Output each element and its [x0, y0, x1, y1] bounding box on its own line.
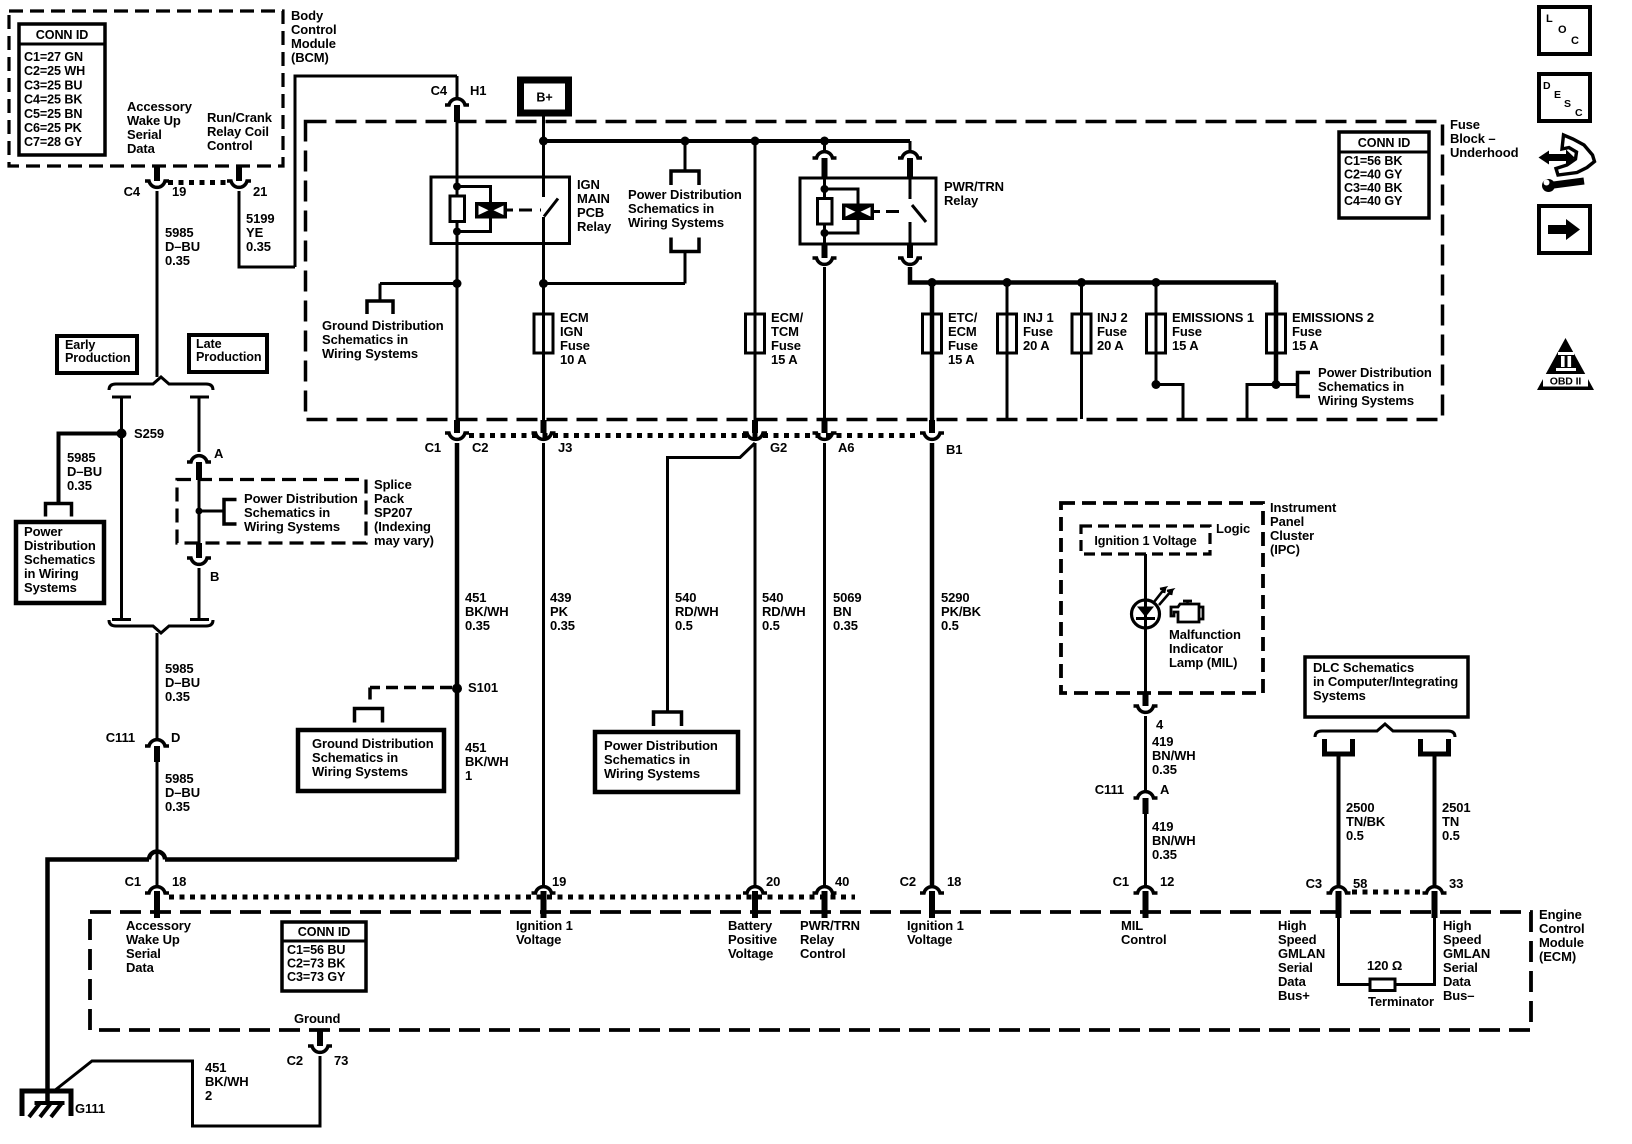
box Early Production: [57, 336, 137, 373]
PWR/TRN relay coil resistor: [818, 199, 833, 225]
brace from DLC reference to bus wires: [1315, 724, 1455, 737]
svg-text:Relay: Relay: [800, 932, 835, 947]
svg-text:540: 540: [762, 590, 783, 605]
splice S259: [117, 429, 127, 439]
svg-text:C111: C111: [1095, 782, 1124, 797]
svg-text:20 A: 20 A: [1097, 338, 1124, 353]
svg-text:Distribution: Distribution: [24, 538, 96, 553]
DLC terminal (bus -): [1421, 739, 1449, 754]
svg-text:C1: C1: [1113, 874, 1129, 889]
svg-text:Terminator: Terminator: [1368, 994, 1434, 1009]
svg-text:D–BU: D–BU: [165, 675, 200, 690]
dotted in-line connector row: [469, 433, 920, 438]
brace joining production paths (lower): [109, 620, 213, 633]
table CONN ID (BCM): [19, 24, 105, 155]
svg-text:Schematics in: Schematics in: [628, 201, 714, 216]
svg-text:G2: G2: [770, 440, 787, 455]
svg-text:C2=73 BK: C2=73 BK: [287, 956, 345, 970]
dotted connector line C3: [1352, 890, 1423, 895]
box Power Distribution Schematics in Wiring Systems (left): [16, 522, 104, 603]
connector G2: [752, 420, 758, 433]
svg-text:(IPC): (IPC): [1270, 542, 1300, 557]
connector pin 20 at ECM: [743, 887, 767, 893]
svg-text:C: C: [1571, 35, 1579, 47]
wire EMISSIONS 2 to power distribution reference: [1276, 383, 1298, 386]
svg-text:Data: Data: [126, 960, 155, 975]
connector C3 pin 58 at ECM: [1327, 887, 1351, 893]
wire early production branch down to S259: [120, 397, 123, 434]
svg-text:C2=40 GY: C2=40 GY: [1344, 167, 1403, 181]
svg-text:Bus–: Bus–: [1443, 988, 1474, 1003]
svg-text:Body: Body: [291, 8, 324, 23]
connector C2 pin 18 at ECM: [920, 887, 944, 893]
wire from B+ to power rail: [542, 110, 545, 141]
svg-text:GMLAN: GMLAN: [1443, 946, 1490, 961]
PWR/TRN solenoid loop: [825, 189, 859, 204]
svg-text:Voltage: Voltage: [728, 946, 773, 961]
svg-text:C7=28 GY: C7=28 GY: [24, 135, 83, 149]
svg-text:451: 451: [205, 1060, 226, 1075]
svg-text:0.35: 0.35: [1152, 762, 1177, 777]
svg-text:High: High: [1278, 918, 1307, 933]
icon vehicle service (arrow, car, wrench): [1556, 135, 1595, 175]
svg-text:Serial: Serial: [1278, 960, 1313, 975]
svg-text:Power Distribution: Power Distribution: [244, 491, 358, 506]
svg-text:Voltage: Voltage: [516, 932, 561, 947]
svg-text:C2: C2: [287, 1053, 303, 1068]
svg-text:12: 12: [1160, 874, 1174, 889]
svg-text:Relay: Relay: [944, 193, 979, 208]
svg-text:CONN ID: CONN ID: [36, 28, 88, 42]
svg-text:C1=56 BU: C1=56 BU: [287, 943, 345, 957]
off-page bracket return (bottom): [671, 238, 699, 252]
svg-text:D–BU: D–BU: [165, 239, 200, 254]
svg-text:E: E: [1554, 89, 1561, 101]
connector C1 pin 18 at ECM: [145, 887, 169, 893]
svg-text:IGN: IGN: [560, 324, 583, 339]
svg-text:451: 451: [465, 740, 486, 755]
fuse ECM IGN 10A: [534, 314, 553, 353]
svg-text:Battery: Battery: [728, 918, 773, 933]
svg-text:Cluster: Cluster: [1270, 528, 1314, 543]
svg-text:ECM: ECM: [948, 324, 977, 339]
off-page bracket power distribution (top): [671, 171, 699, 185]
off-page bracket (horizontal) to power distribution from splice pack: [224, 500, 237, 525]
svg-text:1: 1: [465, 768, 472, 783]
wire ECM/TCM fuse to connector G2: [754, 353, 757, 420]
svg-text:Production: Production: [65, 351, 130, 365]
svg-text:Power Distribution: Power Distribution: [604, 738, 718, 753]
wire INJ 1 fuse to fuse block edge: [1006, 353, 1009, 419]
svg-text:Power Distribution: Power Distribution: [628, 187, 742, 202]
svg-text:Wiring Systems: Wiring Systems: [322, 346, 418, 361]
svg-text:C2=25 WH: C2=25 WH: [24, 64, 85, 78]
ground run wire 451 to left side: [165, 857, 457, 862]
svg-text:Malfunction: Malfunction: [1169, 627, 1241, 642]
svg-text:Accessory: Accessory: [127, 99, 193, 114]
wire 5985 D-BU from C111 to ECM pin 18: [156, 762, 159, 885]
svg-text:0.5: 0.5: [941, 618, 959, 633]
PWR/TRN actuating dashes: [886, 210, 906, 213]
svg-text:ECM: ECM: [560, 310, 589, 325]
svg-text:PK/BK: PK/BK: [941, 604, 982, 619]
svg-text:H1: H1: [470, 83, 486, 98]
svg-text:C: C: [1575, 107, 1583, 119]
svg-text:Positive: Positive: [728, 932, 777, 947]
IGN MAIN relay coil top junction: [453, 183, 461, 191]
svg-text:19: 19: [552, 874, 566, 889]
IGN MAIN relay coil bottom junction: [453, 228, 461, 236]
svg-text:Engine: Engine: [1539, 907, 1582, 922]
svg-text:Speed: Speed: [1443, 932, 1482, 947]
svg-text:INJ 2: INJ 2: [1097, 310, 1128, 325]
wire INJ 2 fuse to fuse block edge: [1080, 353, 1083, 419]
wire 5199 YE 0.35 from pin 21 to BCM: [239, 191, 295, 267]
wire from connector B down to lower brace: [198, 568, 201, 620]
relay IGN MAIN PCB outline: [431, 177, 570, 244]
connector C111 pin D: [145, 740, 169, 746]
svg-text:58: 58: [1353, 876, 1367, 891]
svg-text:ECM/: ECM/: [771, 310, 804, 325]
box Late Production: [189, 335, 267, 372]
svg-text:Control: Control: [291, 22, 337, 37]
IGN MAIN relay coil pin segments: [456, 177, 459, 196]
svg-text:Serial: Serial: [1443, 960, 1478, 975]
junction on rail feeding ECM/TCM fuse: [751, 137, 760, 146]
svg-text:Power Distribution: Power Distribution: [1318, 365, 1432, 380]
svg-text:D: D: [171, 730, 180, 745]
svg-text:Power: Power: [24, 524, 63, 539]
splice pack SP207 dashed outline: [177, 480, 366, 544]
connector B1: [929, 420, 935, 433]
svg-text:(Indexing: (Indexing: [374, 519, 431, 534]
connector pin 19 at ECM: [532, 887, 556, 893]
svg-text:Schematics in: Schematics in: [244, 505, 330, 520]
svg-text:0.35: 0.35: [165, 799, 190, 814]
junction bus to INJ 1 fuse: [1003, 278, 1012, 287]
svg-text:Speed: Speed: [1278, 932, 1317, 947]
junction bus to EMISSIONS 1 fuse: [1152, 278, 1161, 287]
PWR/TRN coil junctions: [821, 185, 829, 193]
svg-text:Underhood: Underhood: [1450, 145, 1519, 160]
wire GMLAN bus+ to terminator: [1339, 918, 1371, 985]
terminal bar early production branch: [112, 396, 131, 399]
svg-text:D–BU: D–BU: [67, 464, 102, 479]
svg-text:540: 540: [675, 590, 696, 605]
svg-text:C4: C4: [431, 83, 448, 98]
svg-text:CONN ID: CONN ID: [1358, 136, 1410, 150]
wire hop over 5985 wire: [149, 852, 165, 860]
fuse ECM/TCM 15A: [746, 314, 765, 353]
svg-text:S: S: [1564, 98, 1571, 110]
svg-text:Control: Control: [1539, 921, 1585, 936]
indicator lamp MIL (LED symbol): [1132, 600, 1160, 628]
wire 2500 TN/BK from DLC to ECM pin 58: [1337, 754, 1341, 885]
box DLC Schematics in Computer/Integrating Systems: [1305, 657, 1468, 717]
svg-text:Module: Module: [291, 36, 336, 51]
wire PWR/TRN coil to connector A6: [823, 267, 826, 432]
svg-text:0.35: 0.35: [67, 478, 92, 493]
table CONN ID (fuse block): [1339, 132, 1429, 218]
svg-text:EMISSIONS 1: EMISSIONS 1: [1172, 310, 1254, 325]
svg-text:TCM: TCM: [771, 324, 799, 339]
svg-text:G111: G111: [75, 1101, 105, 1116]
svg-text:IGN: IGN: [577, 177, 600, 192]
ground G111 wire into symbol: [45, 1091, 50, 1103]
svg-text:Fuse: Fuse: [560, 338, 590, 353]
wire EMISSIONS 1 fuse to fuse block edge: [1155, 353, 1158, 385]
fuse EMISSIONS 2 15A: [1274, 283, 1279, 315]
off-page bracket power distribution (emissions): [1298, 373, 1311, 397]
brace splitting early/late production paths: [109, 377, 213, 390]
svg-text:Accessory: Accessory: [126, 918, 192, 933]
PWR/TRN switch blade: [912, 205, 926, 222]
svg-text:Control: Control: [207, 138, 253, 153]
module box: IPC dashed outline: [1061, 503, 1263, 693]
dotted connector line between pins 19 and 21: [168, 180, 228, 185]
svg-text:ETC/: ETC/: [948, 310, 978, 325]
svg-text:Schematics: Schematics: [24, 552, 95, 567]
svg-text:Production: Production: [196, 350, 261, 364]
svg-text:C5=25 BN: C5=25 BN: [24, 107, 82, 121]
svg-text:0.35: 0.35: [246, 239, 271, 254]
svg-text:40: 40: [835, 874, 849, 889]
svg-text:Fuse: Fuse: [948, 338, 978, 353]
svg-text:PWR/TRN: PWR/TRN: [944, 179, 1004, 194]
svg-text:Lamp (MIL): Lamp (MIL): [1169, 655, 1237, 670]
IGN MAIN relay switch fixed contacts: [542, 177, 545, 197]
svg-text:DLC Schematics: DLC Schematics: [1313, 660, 1414, 675]
svg-text:BN/WH: BN/WH: [1152, 748, 1196, 763]
wire ETC/ECM fuse to connector B1: [930, 353, 935, 420]
svg-text:Fuse: Fuse: [1097, 324, 1127, 339]
svg-text:439: 439: [550, 590, 571, 605]
connector C4 pin 21 at BCM: [236, 166, 242, 181]
svg-text:Schematics in: Schematics in: [322, 332, 408, 347]
svg-text:PWR/TRN: PWR/TRN: [800, 918, 860, 933]
PWR/TRN relay bottom connectors: [822, 244, 828, 258]
svg-text:Systems: Systems: [24, 580, 77, 595]
svg-text:may vary): may vary): [374, 533, 434, 548]
off-page bracket to power distribution (left): [46, 504, 72, 517]
connector pin 40 at ECM: [813, 887, 837, 893]
svg-text:5985: 5985: [165, 771, 194, 786]
svg-text:Schematics in: Schematics in: [312, 750, 398, 765]
svg-text:Early: Early: [65, 338, 95, 352]
wire from S259 continuing down to lower brace: [120, 434, 123, 620]
wire EMISSIONS 2 fuse to fuse block edge: [1274, 353, 1279, 385]
box Ground Distribution Schematics in Wiring Systems (S101): [298, 730, 444, 791]
svg-text:5069: 5069: [833, 590, 862, 605]
svg-text:C1=56 BK: C1=56 BK: [1344, 154, 1402, 168]
resistor terminator 120 ohm: [1370, 979, 1395, 991]
svg-text:BN/WH: BN/WH: [1152, 833, 1196, 848]
svg-text:EMISSIONS 2: EMISSIONS 2: [1292, 310, 1374, 325]
fuse INJ 2 20A: [1080, 283, 1083, 315]
svg-text:0.35: 0.35: [833, 618, 858, 633]
svg-text:20: 20: [766, 874, 780, 889]
wire from rail to ECM/TCM fuse: [754, 141, 757, 314]
svg-text:2500: 2500: [1346, 800, 1375, 815]
svg-text:Wiring Systems: Wiring Systems: [1318, 393, 1414, 408]
svg-text:Systems: Systems: [1313, 688, 1366, 703]
connector C4 pin H1 into fuse block: [456, 76, 459, 97]
svg-text:B1: B1: [946, 442, 962, 457]
svg-text:(ECM): (ECM): [1539, 949, 1576, 964]
svg-text:19: 19: [172, 184, 186, 199]
junction coil return / ground distribution branch: [453, 279, 462, 288]
svg-text:Schematics in: Schematics in: [604, 752, 690, 767]
engine icon (check engine): [1171, 604, 1199, 622]
wire 5985 D-BU branch from S259 to power distribution reference: [59, 434, 122, 504]
svg-text:73: 73: [334, 1053, 348, 1068]
svg-text:O: O: [1558, 24, 1567, 36]
wire IGN MAIN coil return to ground distribution: [456, 244, 459, 433]
svg-text:S259: S259: [134, 426, 164, 441]
svg-text:C3=25 BU: C3=25 BU: [24, 78, 82, 92]
svg-text:C4: C4: [124, 184, 141, 199]
svg-text:Panel: Panel: [1270, 514, 1304, 529]
off-page bracket ground distribution (S101): [355, 709, 383, 723]
svg-text:Pack: Pack: [374, 491, 405, 506]
svg-text:B: B: [210, 569, 219, 584]
svg-text:Data: Data: [1278, 974, 1307, 989]
svg-text:Ignition 1: Ignition 1: [907, 918, 964, 933]
svg-text:2501: 2501: [1442, 800, 1471, 815]
splice S101: [452, 684, 462, 694]
svg-text:INJ 1: INJ 1: [1023, 310, 1054, 325]
svg-text:15 A: 15 A: [1292, 338, 1319, 353]
svg-text:451: 451: [465, 590, 486, 605]
svg-text:Wiring Systems: Wiring Systems: [628, 215, 724, 230]
junction in splice pack to power distribution reference: [196, 508, 203, 515]
wire 540 RD/WH branch from G2 to power distribution: [668, 443, 756, 712]
connector C111 pin A (MIL circuit): [1134, 792, 1158, 798]
svg-text:Voltage: Voltage: [907, 932, 952, 947]
connector A of splice pack SP207: [187, 456, 211, 462]
connector C1 pin 12 at ECM: [1134, 887, 1158, 893]
junction of IGN MAIN switch output: [539, 279, 548, 288]
svg-text:Wiring Systems: Wiring Systems: [604, 766, 700, 781]
logic block Ignition 1 Voltage: [1081, 526, 1210, 554]
svg-text:CONN ID: CONN ID: [298, 925, 350, 939]
off-page bracket ground distribution (fuse block): [367, 301, 393, 314]
svg-text:YE: YE: [246, 225, 264, 240]
svg-text:0.35: 0.35: [165, 689, 190, 704]
svg-text:Wake Up: Wake Up: [126, 932, 180, 947]
svg-text:15 A: 15 A: [1172, 338, 1199, 353]
svg-text:MIL: MIL: [1121, 918, 1143, 933]
svg-text:Ground Distribution: Ground Distribution: [312, 736, 434, 751]
module box: BCM connector-ID dashed outline: [9, 11, 283, 166]
svg-text:Ground: Ground: [294, 1011, 340, 1026]
svg-text:18: 18: [947, 874, 961, 889]
wire Ignition 1 Voltage to MIL lamp: [1144, 554, 1147, 600]
IGN MAIN relay solenoid loop: [457, 187, 491, 204]
svg-text:D–BU: D–BU: [165, 785, 200, 800]
svg-text:RD/WH: RD/WH: [675, 604, 719, 619]
svg-text:Wiring Systems: Wiring Systems: [244, 519, 340, 534]
connector caps feeding PWR/TRN relay: [820, 137, 829, 146]
svg-text:C3=40 BK: C3=40 BK: [1344, 181, 1402, 195]
svg-text:Fuse: Fuse: [1292, 324, 1322, 339]
svg-text:5290: 5290: [941, 590, 970, 605]
svg-text:J3: J3: [558, 440, 572, 455]
module box: fuse block underhood dashed outline: [306, 122, 1443, 420]
svg-text:Instrument: Instrument: [1270, 500, 1337, 515]
svg-text:C1: C1: [425, 440, 441, 455]
svg-text:C1: C1: [125, 874, 141, 889]
svg-text:Ignition 1 Voltage: Ignition 1 Voltage: [1094, 534, 1196, 548]
icon LOC: [1539, 7, 1590, 54]
svg-text:BN: BN: [833, 604, 852, 619]
svg-text:419: 419: [1152, 734, 1173, 749]
terminal bar late production branch: [190, 396, 209, 399]
wire IGN MAIN switch output to ECM IGN fuse: [542, 141, 545, 177]
icon OBD II warning triangle: [1537, 338, 1594, 390]
wire 451 BK/WH from C2 to S101: [455, 443, 460, 689]
svg-text:Ignition 1: Ignition 1: [516, 918, 573, 933]
junction bus to INJ 2 fuse: [1077, 278, 1086, 287]
dashed branch from S101 to ground distribution: [370, 686, 452, 690]
svg-text:20 A: 20 A: [1023, 338, 1050, 353]
module box: ECM dashed outline: [90, 912, 1531, 1030]
ground G111 symbol: [22, 1091, 71, 1116]
fuse EMISSIONS 1 15A: [1155, 283, 1158, 315]
svg-text:0.35: 0.35: [1152, 847, 1177, 862]
wire 5985 D-BU from pin 19 down to production brace: [156, 191, 159, 377]
wire 451 BK/WH 1 from S101 to ground run: [455, 689, 460, 860]
svg-text:Wake Up: Wake Up: [127, 113, 181, 128]
svg-text:Fuse: Fuse: [771, 338, 801, 353]
svg-text:Data: Data: [1443, 974, 1472, 989]
svg-text:in Wiring: in Wiring: [24, 566, 79, 581]
svg-text:C3=73 GY: C3=73 GY: [287, 970, 346, 984]
svg-text:18: 18: [172, 874, 186, 889]
PWR/TRN solenoid symbol: [842, 204, 874, 221]
wire 5985 D-BU from lower brace to C111: [156, 633, 159, 738]
svg-text:PK: PK: [550, 604, 569, 619]
svg-text:5985: 5985: [165, 661, 194, 676]
junction to power distribution off-page reference: [681, 137, 690, 146]
MIL lamp emission arrows: [1154, 588, 1172, 605]
svg-text:5985: 5985: [67, 450, 96, 465]
svg-text:C4=40 GY: C4=40 GY: [1344, 194, 1403, 208]
svg-text:120 Ω: 120 Ω: [1367, 958, 1402, 973]
svg-text:C111: C111: [106, 730, 135, 745]
svg-text:Ground Distribution: Ground Distribution: [322, 318, 444, 333]
wire from H1 connector into IGN MAIN relay coil: [456, 118, 459, 177]
svg-text:0.5: 0.5: [762, 618, 780, 633]
battery positive B+ terminal box: [521, 80, 569, 113]
dotted connector row at ECM: [169, 895, 855, 900]
svg-text:S101: S101: [468, 680, 498, 695]
svg-text:Relay Coil: Relay Coil: [207, 124, 269, 139]
svg-text:21: 21: [253, 184, 267, 199]
svg-text:OBD II: OBD II: [1550, 376, 1582, 388]
wire 2501 TN from DLC to ECM pin 33: [1433, 754, 1437, 885]
svg-text:0.35: 0.35: [165, 253, 190, 268]
svg-text:A: A: [1160, 782, 1170, 797]
fuse INJ 1 20A: [1006, 283, 1009, 315]
svg-text:D: D: [1543, 80, 1551, 92]
svg-text:Run/Crank: Run/Crank: [207, 110, 273, 125]
svg-text:BK/WH: BK/WH: [205, 1074, 249, 1089]
off-page bracket power distribution (mid): [654, 712, 682, 726]
svg-text:in Computer/Integrating: in Computer/Integrating: [1313, 674, 1458, 689]
svg-text:Data: Data: [127, 141, 156, 156]
wire ECM IGN fuse to connector J3: [542, 353, 545, 420]
